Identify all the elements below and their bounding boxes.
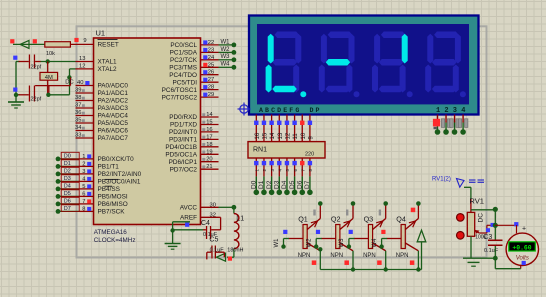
svg-text:3: 3 bbox=[82, 169, 85, 175]
svg-text:W4: W4 bbox=[372, 238, 378, 248]
svg-text:PC7/TOSC2: PC7/TOSC2 bbox=[162, 94, 198, 101]
svg-text:PA4/ADC4: PA4/ADC4 bbox=[98, 113, 129, 120]
svg-text:W3: W3 bbox=[221, 54, 231, 60]
svg-text:D6: D6 bbox=[296, 180, 303, 189]
svg-text:18: 18 bbox=[206, 142, 212, 148]
svg-text:26: 26 bbox=[208, 70, 214, 76]
svg-text:22pf: 22pf bbox=[31, 97, 42, 103]
svg-text:W1: W1 bbox=[274, 238, 280, 248]
svg-text:PB6/MISO: PB6/MISO bbox=[98, 201, 128, 208]
svg-text:D2: D2 bbox=[64, 169, 71, 175]
svg-text:PD2/INT0: PD2/INT0 bbox=[169, 129, 198, 136]
svg-text:Volts: Volts bbox=[516, 256, 529, 262]
svg-text:4M: 4M bbox=[45, 75, 53, 81]
svg-text:16: 16 bbox=[255, 132, 261, 139]
svg-text:D1: D1 bbox=[64, 161, 71, 167]
svg-text:17: 17 bbox=[206, 134, 212, 140]
svg-text:D0: D0 bbox=[64, 154, 71, 160]
svg-text:180nH: 180nH bbox=[227, 247, 243, 253]
svg-text:40: 40 bbox=[77, 80, 83, 86]
svg-text:Q1: Q1 bbox=[298, 215, 308, 224]
svg-text:8: 8 bbox=[82, 206, 85, 212]
svg-text:D5: D5 bbox=[64, 191, 71, 197]
svg-text:NPN: NPN bbox=[330, 253, 343, 259]
svg-text:PB3/OC0/AIN1: PB3/OC0/AIN1 bbox=[98, 179, 141, 186]
svg-text:RV1: RV1 bbox=[469, 196, 484, 205]
svg-text:7: 7 bbox=[82, 199, 85, 205]
svg-text:5: 5 bbox=[82, 184, 85, 190]
svg-text:6: 6 bbox=[82, 191, 85, 197]
svg-text:CLOCK=4MHz: CLOCK=4MHz bbox=[94, 237, 136, 244]
svg-text:Q4: Q4 bbox=[396, 215, 406, 224]
svg-text:PA7/ADC7: PA7/ADC7 bbox=[98, 135, 129, 142]
svg-text:W2: W2 bbox=[307, 238, 313, 248]
svg-text:28: 28 bbox=[208, 85, 214, 91]
svg-text:37: 37 bbox=[75, 103, 81, 109]
svg-text:PB2/INT2/AIN0: PB2/INT2/AIN0 bbox=[98, 171, 142, 178]
svg-text:PB0/XCK/T0: PB0/XCK/T0 bbox=[98, 156, 135, 163]
svg-text:Q3: Q3 bbox=[364, 215, 374, 224]
svg-text:220: 220 bbox=[305, 151, 314, 157]
svg-text:13: 13 bbox=[79, 56, 85, 62]
svg-text:W3: W3 bbox=[339, 238, 345, 248]
svg-text:22: 22 bbox=[208, 40, 214, 46]
svg-text:W2: W2 bbox=[221, 47, 231, 53]
svg-text:38: 38 bbox=[75, 95, 81, 101]
svg-text:PC3/TMS: PC3/TMS bbox=[169, 65, 197, 72]
svg-text:D6: D6 bbox=[64, 199, 71, 205]
svg-text:14: 14 bbox=[206, 112, 213, 118]
svg-text:PA6/ADC6: PA6/ADC6 bbox=[98, 128, 129, 135]
svg-text:23: 23 bbox=[208, 47, 214, 53]
svg-text:+: + bbox=[522, 226, 526, 233]
svg-text:PA0/ADC0: PA0/ADC0 bbox=[98, 83, 129, 90]
svg-text:15: 15 bbox=[206, 120, 212, 126]
svg-text:PA5/ADC5: PA5/ADC5 bbox=[98, 120, 129, 127]
svg-text:RV1(2): RV1(2) bbox=[432, 177, 451, 183]
svg-text:PD1/TXD: PD1/TXD bbox=[170, 122, 197, 129]
svg-text:PB7/SCK: PB7/SCK bbox=[98, 209, 126, 216]
svg-text:NPN: NPN bbox=[298, 253, 311, 259]
svg-text:PD5/OC1A: PD5/OC1A bbox=[165, 152, 197, 159]
svg-text:D5: D5 bbox=[289, 180, 296, 189]
svg-text:22pf: 22pf bbox=[31, 65, 42, 71]
svg-text:ATMEGA16: ATMEGA16 bbox=[94, 229, 128, 236]
svg-text:PC5/TDI: PC5/TDI bbox=[172, 79, 197, 86]
svg-text:DC: DC bbox=[478, 213, 485, 223]
svg-text:D7: D7 bbox=[64, 206, 71, 212]
svg-text:9: 9 bbox=[83, 38, 86, 44]
svg-text:NPN: NPN bbox=[396, 253, 409, 259]
svg-text:DP: DP bbox=[310, 107, 322, 114]
svg-text:PA2/ADC2: PA2/ADC2 bbox=[98, 98, 129, 105]
svg-text:RESET: RESET bbox=[98, 42, 119, 49]
svg-text:12: 12 bbox=[286, 132, 292, 139]
svg-text:21: 21 bbox=[206, 164, 212, 170]
svg-text:Q2: Q2 bbox=[331, 215, 341, 224]
svg-text:15: 15 bbox=[263, 132, 269, 139]
svg-text:PB5/MOSI: PB5/MOSI bbox=[98, 194, 128, 201]
svg-text:1: 1 bbox=[82, 154, 85, 160]
svg-text:PB1/T1: PB1/T1 bbox=[98, 164, 120, 171]
svg-text:PD0/RXD: PD0/RXD bbox=[169, 114, 197, 121]
svg-text:10: 10 bbox=[301, 132, 307, 139]
svg-text:D3: D3 bbox=[64, 176, 71, 182]
svg-text:ABCDEFG: ABCDEFG bbox=[259, 107, 301, 114]
svg-text:20: 20 bbox=[206, 157, 212, 163]
svg-text:PC6/TOSC1: PC6/TOSC1 bbox=[162, 87, 198, 94]
svg-text:D4: D4 bbox=[281, 180, 288, 189]
svg-text:C5: C5 bbox=[209, 237, 218, 244]
svg-text:29: 29 bbox=[208, 92, 214, 98]
svg-text:35: 35 bbox=[75, 118, 81, 124]
svg-text:+0.60: +0.60 bbox=[512, 244, 531, 251]
svg-text:10k: 10k bbox=[46, 51, 55, 57]
svg-text:33: 33 bbox=[75, 133, 81, 139]
svg-text:27: 27 bbox=[208, 77, 214, 83]
svg-text:D2: D2 bbox=[266, 180, 273, 189]
svg-text:39: 39 bbox=[75, 88, 81, 94]
svg-text:PC0/SCL: PC0/SCL bbox=[170, 42, 197, 49]
svg-text:D4: D4 bbox=[64, 184, 71, 190]
svg-text:19: 19 bbox=[206, 149, 212, 155]
svg-text:0.1uF: 0.1uF bbox=[484, 248, 499, 254]
svg-text:2: 2 bbox=[82, 161, 85, 167]
svg-text:PA1/ADC1: PA1/ADC1 bbox=[98, 90, 129, 97]
svg-text:XTAL1: XTAL1 bbox=[98, 59, 118, 66]
svg-text:0.1uF: 0.1uF bbox=[210, 247, 225, 253]
svg-text:W4: W4 bbox=[221, 62, 231, 68]
svg-text:DC: DC bbox=[65, 80, 73, 86]
svg-text:C4: C4 bbox=[201, 220, 210, 227]
svg-text:D7: D7 bbox=[304, 180, 311, 189]
svg-text:12: 12 bbox=[79, 64, 85, 70]
svg-text:16: 16 bbox=[206, 127, 212, 133]
svg-text:34: 34 bbox=[75, 125, 82, 131]
svg-text:24: 24 bbox=[208, 55, 215, 61]
svg-text:D3: D3 bbox=[273, 180, 280, 189]
svg-text:PD6/ICP1: PD6/ICP1 bbox=[169, 159, 198, 166]
svg-text:RN1: RN1 bbox=[253, 147, 267, 154]
svg-text:U1: U1 bbox=[96, 29, 106, 38]
svg-text:14: 14 bbox=[270, 132, 276, 139]
svg-text:PC4/TDO: PC4/TDO bbox=[169, 72, 197, 79]
svg-text:PA3/ADC3: PA3/ADC3 bbox=[98, 105, 129, 112]
svg-text:13: 13 bbox=[278, 132, 284, 139]
svg-text:36: 36 bbox=[75, 110, 81, 116]
svg-text:30: 30 bbox=[210, 202, 216, 208]
svg-text:W1: W1 bbox=[221, 39, 231, 45]
svg-text:25: 25 bbox=[208, 62, 214, 68]
svg-text:L1: L1 bbox=[236, 215, 244, 222]
svg-text:PD3/INT1: PD3/INT1 bbox=[169, 137, 198, 144]
svg-text:AREF: AREF bbox=[180, 215, 197, 222]
svg-text:1234: 1234 bbox=[436, 107, 470, 115]
svg-text:AVCC: AVCC bbox=[180, 205, 198, 212]
svg-text:PD7/OC2: PD7/OC2 bbox=[170, 166, 198, 173]
svg-text:NPN: NPN bbox=[363, 253, 376, 259]
svg-text:XTAL2: XTAL2 bbox=[98, 66, 118, 73]
svg-text:PC1/SDA: PC1/SDA bbox=[170, 50, 198, 57]
svg-text:PC2/TCK: PC2/TCK bbox=[170, 57, 198, 64]
svg-text:PD4/OC1B: PD4/OC1B bbox=[165, 144, 197, 151]
svg-text:32: 32 bbox=[210, 212, 216, 218]
svg-text:D0: D0 bbox=[251, 180, 258, 189]
svg-text:D1: D1 bbox=[258, 180, 265, 189]
svg-text:11: 11 bbox=[293, 133, 299, 140]
svg-text:PB4/SS: PB4/SS bbox=[98, 186, 120, 193]
